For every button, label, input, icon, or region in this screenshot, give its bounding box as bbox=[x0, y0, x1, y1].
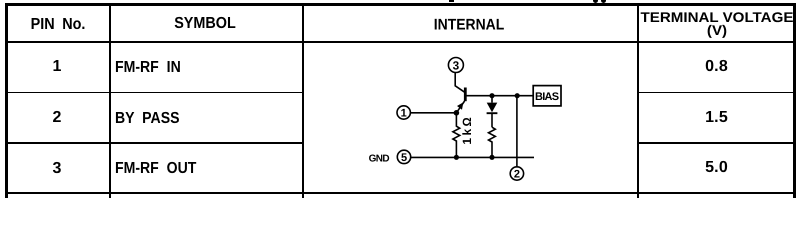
cropped text remnant 3 bbox=[601, 0, 607, 3]
svg-text:2: 2 bbox=[514, 168, 520, 180]
cropped text remnant 2 bbox=[593, 0, 598, 3]
junction dot diode top bbox=[489, 93, 494, 98]
pin circle 5 bbox=[397, 150, 410, 164]
symbol BY PASS bbox=[115, 111, 179, 127]
voltage 1.5 bbox=[705, 110, 728, 126]
transistor Q1 base bar bbox=[464, 88, 467, 102]
BIAS box bbox=[533, 86, 561, 106]
svg-text:3: 3 bbox=[453, 58, 460, 72]
column separator PIN/SYMBOL bbox=[109, 4, 111, 198]
row1 bottom line right segment bbox=[638, 92, 794, 94]
header bottom line bbox=[5, 41, 796, 44]
svg-text:BIAS: BIAS bbox=[535, 91, 559, 103]
diode D1 bbox=[487, 96, 498, 128]
svg-text:GND: GND bbox=[369, 154, 390, 165]
pin circle 2 bbox=[510, 167, 523, 181]
wire BIAS branch to pin 2 bbox=[516, 96, 518, 167]
pin number 3 bbox=[53, 161, 62, 177]
table left border bbox=[5, 3, 8, 198]
svg-text:1: 1 bbox=[401, 107, 407, 119]
row3 bottom line bbox=[5, 192, 796, 194]
transistor Q1 emitter with arrow bbox=[456, 101, 464, 113]
column separator INTERNAL/VOLTAGE bbox=[637, 4, 639, 198]
table top border bbox=[5, 3, 796, 6]
voltage 5.0 bbox=[705, 160, 728, 176]
row1 bottom line left segment bbox=[7, 92, 303, 94]
pin number 2 bbox=[53, 110, 62, 126]
wire collector from pin 3 bbox=[455, 73, 464, 93]
header TERMINAL VOLTAGE (V) bbox=[640, 11, 793, 37]
cropped text remnant 1 bbox=[449, 0, 454, 2]
junction dot emitter node bbox=[454, 110, 460, 116]
wire from pin 1 bbox=[411, 112, 457, 114]
table right border bbox=[793, 3, 796, 198]
svg-text:5: 5 bbox=[401, 152, 407, 164]
resistor R2 bbox=[489, 127, 496, 157]
pin circle 1 bbox=[397, 106, 410, 120]
row2 bottom line right segment bbox=[638, 142, 794, 144]
junction dot R2 ground bbox=[489, 155, 494, 160]
row2 bottom line left segment bbox=[7, 142, 303, 144]
symbol FM-RF OUT bbox=[115, 161, 196, 177]
header INTERNAL bbox=[434, 17, 505, 33]
header PIN No. bbox=[30, 17, 85, 33]
ground wire bbox=[411, 156, 534, 158]
voltage 0.8 bbox=[705, 59, 728, 75]
pin circle 3 bbox=[448, 58, 463, 73]
wire base to BIAS bbox=[466, 95, 534, 97]
pin number 1 bbox=[53, 59, 62, 75]
header SYMBOL bbox=[174, 16, 236, 32]
resistor R1 1kohm bbox=[453, 113, 460, 158]
symbol FM-RF IN bbox=[115, 60, 181, 76]
svg-text:1kΩ: 1kΩ bbox=[460, 115, 474, 145]
column separator SYMBOL/INTERNAL bbox=[302, 4, 304, 198]
junction dot BIAS branch bbox=[515, 93, 520, 98]
junction dot R1 ground bbox=[454, 155, 459, 160]
